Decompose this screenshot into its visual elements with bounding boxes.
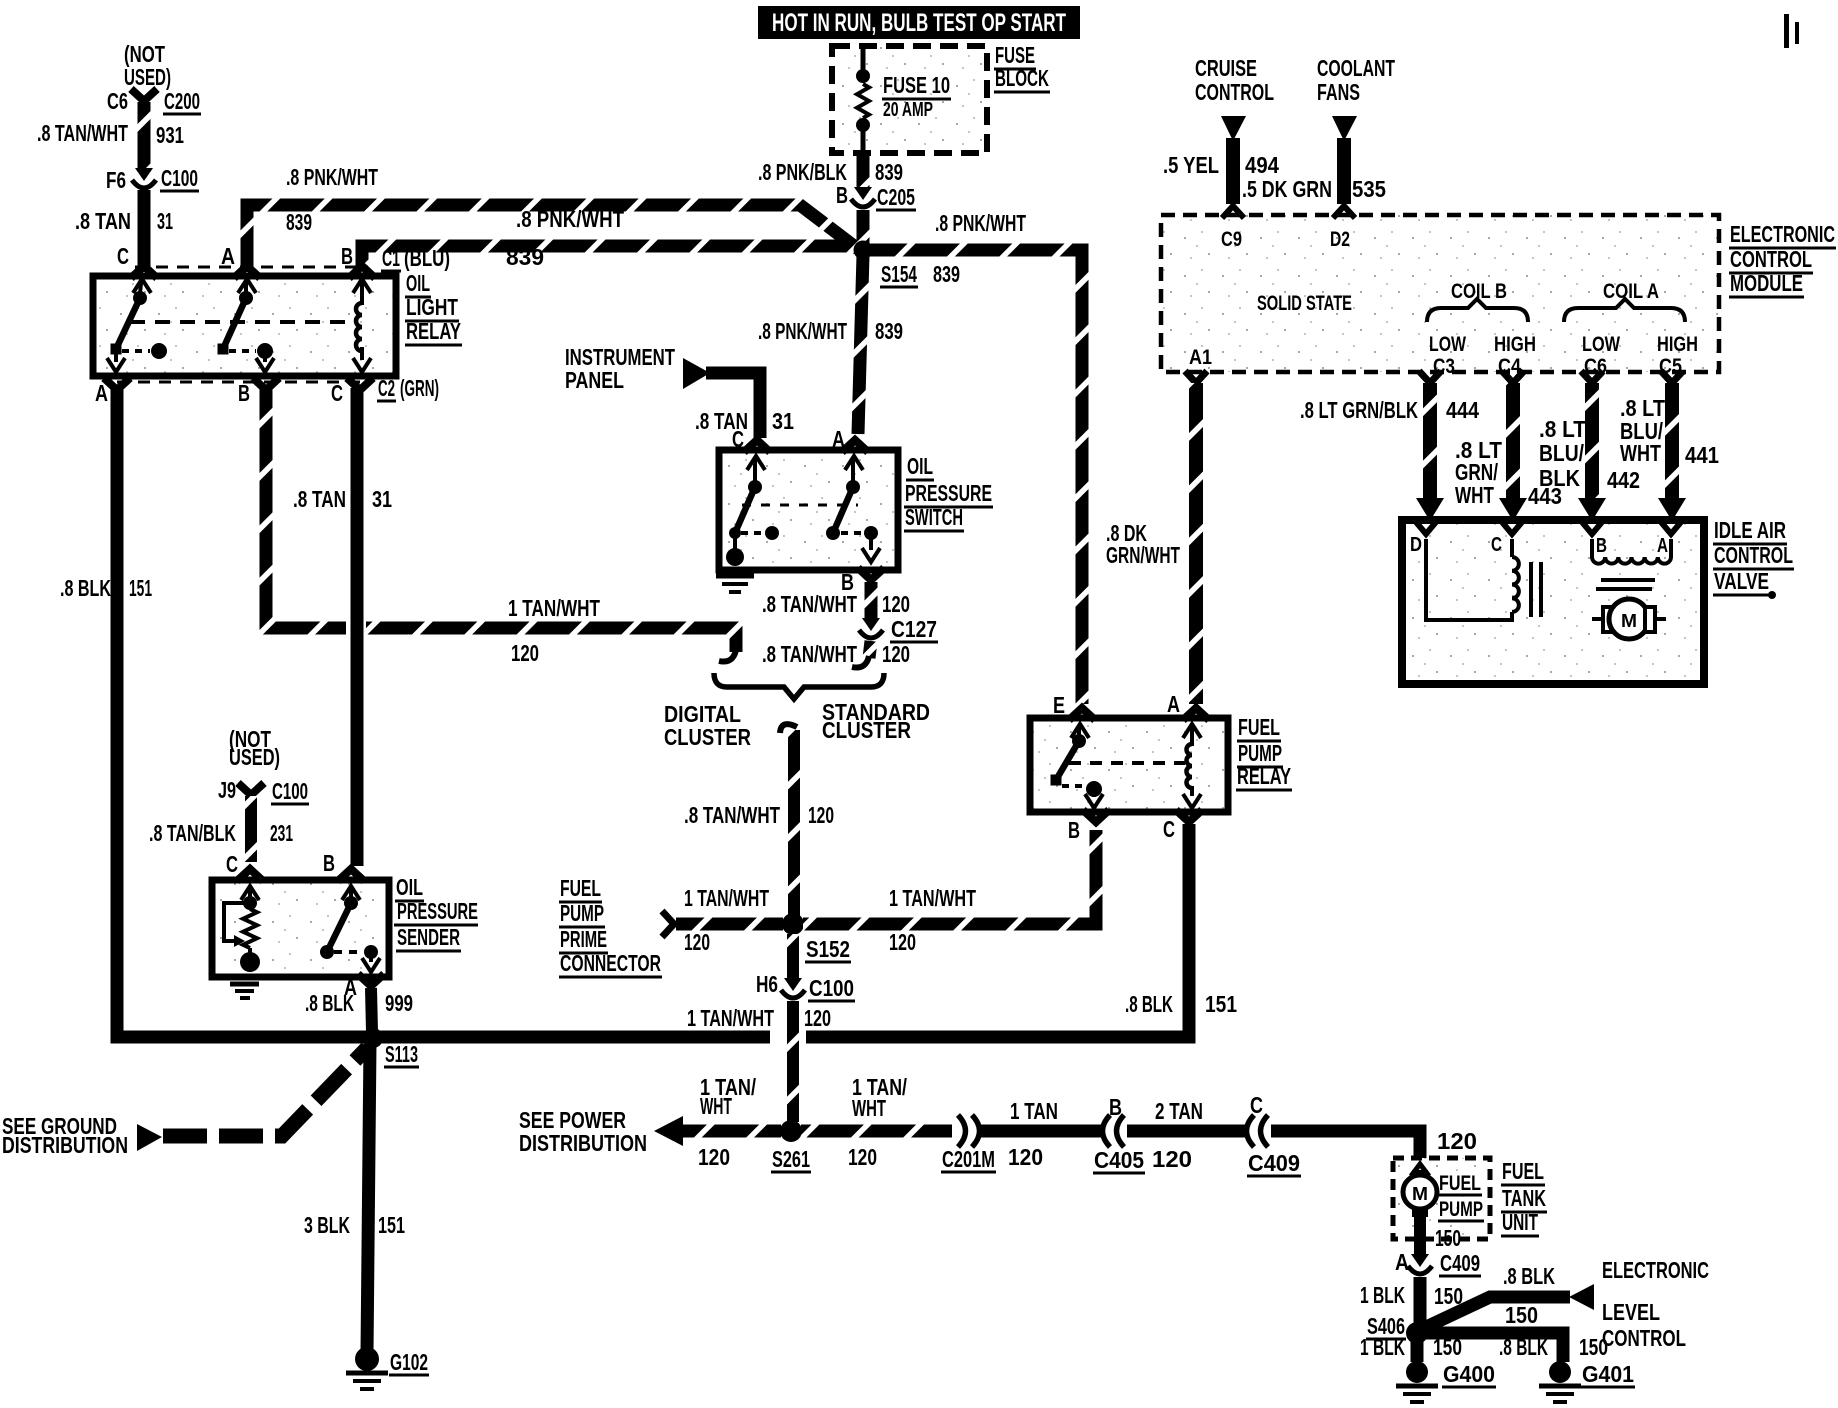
svg-text:1 BLK: 1 BLK: [1360, 1282, 1405, 1308]
svg-text:(GRN): (GRN): [400, 375, 439, 401]
svg-text:D2: D2: [1330, 228, 1350, 251]
wire prime connector to S152 1 TAN/WHT 120: [676, 918, 783, 931]
svg-text:C: C: [1491, 534, 1502, 556]
oil light relay top connector row: [135, 266, 368, 269]
svg-text:.8 TAN/WHT: .8 TAN/WHT: [684, 802, 780, 828]
svg-text:120: 120: [808, 802, 834, 828]
svg-text:150: 150: [1433, 1334, 1462, 1360]
svg-text:F6: F6: [106, 167, 126, 193]
svg-text:.8 LT: .8 LT: [1539, 416, 1587, 442]
switch pin B wire .8 TAN/WHT 120 to C127: [858, 568, 884, 580]
fuel pump relay coil: [1183, 724, 1201, 738]
svg-text:.8 LT GRN/BLK: .8 LT GRN/BLK: [1300, 397, 1418, 423]
wire S406 to G401 .8 BLK 150: [1424, 1333, 1563, 1362]
svg-text:20 AMP: 20 AMP: [883, 99, 933, 121]
wire C201M to C405 1 TAN 120: [977, 1125, 1102, 1138]
svg-text:FUEL: FUEL: [1502, 1158, 1544, 1184]
wire C405 to C409 2 TAN 120: [1127, 1125, 1246, 1138]
connector C100 pin F6: [135, 168, 153, 181]
svg-text:COOLANT: COOLANT: [1317, 55, 1395, 81]
svg-text:A: A: [1167, 691, 1180, 717]
wire instrument panel to switch pin C .8 TAN 31: [706, 373, 760, 438]
svg-text:C409: C409: [1440, 1250, 1480, 1276]
oil pressure switch ground: [716, 574, 754, 579]
svg-text:B: B: [1109, 1094, 1122, 1120]
wire S406 to electronic level control .8 BLK 150: [1424, 1297, 1570, 1328]
svg-text:OIL: OIL: [907, 453, 933, 479]
digital/standard cluster brace: [714, 673, 884, 699]
svg-text:1 TAN/WHT: 1 TAN/WHT: [687, 1005, 774, 1031]
svg-text:C: C: [1250, 1092, 1263, 1118]
svg-text:ELECTRONIC: ELECTRONIC: [1730, 221, 1835, 247]
svg-text:.8 BLK: .8 BLK: [1503, 1263, 1555, 1289]
valve winding B-A: [1590, 539, 1594, 557]
svg-text:444: 444: [1446, 397, 1479, 423]
svg-text:151: 151: [129, 575, 152, 601]
svg-text:SOLID STATE: SOLID STATE: [1257, 292, 1352, 315]
svg-text:A: A: [95, 380, 108, 406]
svg-text:C100: C100: [161, 165, 198, 191]
svg-text:839: 839: [286, 209, 312, 235]
svg-text:HIGH: HIGH: [1657, 333, 1698, 356]
svg-text:BLK: BLK: [1539, 465, 1580, 491]
svg-text:150: 150: [1579, 1334, 1608, 1360]
svg-text:VALVE: VALVE: [1714, 568, 1769, 594]
svg-text:931: 931: [156, 122, 184, 148]
wire ECM C3 to valve D .8 LT GRN/BLK 444: [1419, 371, 1441, 383]
banner HOT IN RUN: [758, 6, 1080, 39]
sender pin A wire .8 BLK 999: [358, 974, 384, 986]
svg-text:C: C: [226, 851, 238, 877]
svg-text:C9: C9: [1221, 228, 1242, 251]
svg-text:(BLU): (BLU): [404, 245, 450, 271]
svg-text:442: 442: [1607, 467, 1640, 493]
svg-text:PRESSURE: PRESSURE: [397, 898, 478, 924]
wire cruise control to ECM C9 .5 YEL 494: [1226, 138, 1240, 204]
svg-text:USED): USED): [229, 744, 280, 770]
svg-text:231: 231: [270, 820, 293, 846]
svg-text:120: 120: [848, 1144, 877, 1170]
svg-text:C1: C1: [382, 245, 400, 271]
oil light relay coil: [353, 279, 371, 293]
valve pin connectors D C B A: [1416, 522, 1436, 534]
oil light relay actuation dashed line: [130, 320, 350, 324]
svg-text:RELAY: RELAY: [1237, 763, 1291, 789]
sender internal ground: [230, 982, 259, 987]
svg-text:CONNECTOR: CONNECTOR: [560, 950, 661, 976]
wire C409 to S406 1 BLK 150: [1414, 1277, 1427, 1326]
svg-text:B: B: [1596, 535, 1607, 557]
valve coil core: [1529, 562, 1533, 617]
svg-text:A: A: [832, 426, 845, 452]
fuse F10 symbol: [861, 49, 866, 70]
fuse block box: [832, 46, 987, 153]
idle air control valve box: [1402, 520, 1704, 684]
svg-text:120: 120: [1152, 1146, 1192, 1172]
svg-text:31: 31: [157, 208, 173, 234]
wire ECM C6 to valve B .8 LT BLU/BLK 442: [1581, 371, 1603, 383]
svg-text:1 TAN/WHT: 1 TAN/WHT: [508, 595, 600, 621]
svg-text:CONTROL: CONTROL: [1730, 246, 1812, 272]
dashed wire S113 to ground distribution: [163, 1048, 367, 1136]
svg-text:120: 120: [1008, 1144, 1043, 1170]
svg-text:M: M: [1621, 611, 1637, 631]
svg-text:PRESSURE: PRESSURE: [905, 480, 992, 506]
svg-text:CLUSTER: CLUSTER: [822, 717, 911, 743]
svg-text:3 BLK: 3 BLK: [304, 1212, 350, 1238]
svg-text:SWITCH: SWITCH: [905, 504, 963, 530]
fuel pump relay bottom pins B C: [1083, 810, 1109, 822]
svg-text:CLUSTER: CLUSTER: [664, 724, 751, 750]
svg-text:494: 494: [1245, 152, 1279, 178]
wire C205 to S154 .8 PNK/WHT 839: [857, 210, 870, 246]
svg-text:S152: S152: [806, 936, 850, 962]
svg-text:31: 31: [372, 486, 392, 512]
svg-text:B: B: [238, 380, 250, 406]
svg-text:C: C: [117, 243, 129, 269]
svg-text:PANEL: PANEL: [565, 367, 624, 393]
valve solenoid coil D-C: [1426, 539, 1512, 620]
svg-text:C6: C6: [107, 88, 128, 114]
wire ECM A1 to fuel pump relay pin A .8 DK GRN/WHT: [1185, 371, 1207, 383]
sender switch contact: [342, 886, 360, 900]
splice S152: [782, 913, 804, 935]
wire S261 to power distribution 1 TAN/WHT 120: [680, 1125, 781, 1138]
svg-text:C127: C127: [891, 616, 937, 642]
connector C409 pin A: [1411, 1254, 1429, 1267]
ground G102: [355, 1347, 379, 1371]
svg-text:RELAY: RELAY: [406, 318, 461, 344]
wire C200 to C100 .8 TAN/WHT 931: [138, 102, 151, 172]
svg-text:FUEL: FUEL: [560, 875, 601, 901]
wire fuel pump relay pin C to BLK junction .8 BLK 151: [806, 824, 1189, 1037]
svg-text:C201M: C201M: [942, 1146, 995, 1172]
connector C409 pin C: [1247, 1115, 1255, 1147]
svg-text:PUMP: PUMP: [1439, 1198, 1483, 1221]
svg-text:OIL: OIL: [406, 270, 430, 296]
wire coolant fans to ECM D2 .5 DK GRN 535: [1337, 138, 1351, 204]
svg-text:E: E: [1053, 692, 1065, 718]
svg-text:HOT IN RUN, BULB TEST OP START: HOT IN RUN, BULB TEST OP START: [772, 9, 1066, 37]
svg-text:USED): USED): [124, 64, 171, 90]
svg-text:120: 120: [882, 591, 910, 617]
svg-text:PRIME: PRIME: [560, 926, 607, 952]
svg-text:.8 TAN/WHT: .8 TAN/WHT: [762, 591, 857, 617]
svg-text:.5 YEL: .5 YEL: [1163, 152, 1219, 178]
svg-text:151: 151: [378, 1212, 405, 1238]
ground G400: [1406, 1361, 1428, 1383]
svg-text:G401: G401: [1582, 1361, 1634, 1387]
svg-text:120: 120: [889, 929, 916, 955]
svg-text:.8 PNK/WHT: .8 PNK/WHT: [516, 206, 625, 232]
svg-text:C100: C100: [272, 778, 308, 804]
wire relay pin A down and across .8 BLK 151: [117, 388, 770, 1037]
svg-text:S113: S113: [385, 1041, 418, 1067]
oil pressure switch left contact to ground: [747, 456, 765, 470]
oil light relay switch A-B contacts: [238, 279, 256, 293]
svg-text:.8 TAN/BLK: .8 TAN/BLK: [149, 820, 236, 846]
electronic control module box: [1161, 215, 1719, 372]
svg-text:.8 PNK/WHT: .8 PNK/WHT: [286, 164, 378, 190]
svg-text:C405: C405: [1094, 1147, 1144, 1173]
svg-text:2 TAN: 2 TAN: [1155, 1098, 1203, 1124]
wire C100 to relay pin C .8 TAN 31: [138, 190, 151, 272]
wire C409 to fuel pump 120: [1271, 1131, 1420, 1162]
svg-text:B: B: [1068, 817, 1080, 843]
wire S154 to fuel pump relay pin E .8 PNK/WHT: [868, 250, 1082, 704]
svg-text:PUMP: PUMP: [560, 900, 604, 926]
svg-text:WHT: WHT: [852, 1095, 886, 1121]
svg-text:120: 120: [684, 929, 710, 955]
svg-text:1 TAN/WHT: 1 TAN/WHT: [889, 885, 976, 911]
svg-text:FUEL: FUEL: [1439, 1172, 1481, 1195]
svg-text:.8 TAN/WHT: .8 TAN/WHT: [37, 120, 128, 146]
svg-text:DISTRIBUTION: DISTRIBUTION: [2, 1132, 128, 1158]
svg-text:150: 150: [1505, 1302, 1538, 1328]
svg-text:.8 BLK: .8 BLK: [1499, 1334, 1548, 1360]
svg-text:.8 TAN: .8 TAN: [75, 208, 131, 234]
connector C200 pin C6 not used: [131, 89, 157, 101]
oil pressure switch actuation dashed line: [742, 504, 858, 507]
svg-text:120: 120: [511, 640, 539, 666]
svg-text:.5 DK GRN: .5 DK GRN: [1242, 176, 1332, 202]
svg-text:120: 120: [698, 1144, 730, 1170]
svg-text:1 TAN/WHT: 1 TAN/WHT: [684, 885, 769, 911]
fuel pump relay actuation dashed line: [1069, 761, 1185, 765]
svg-text:WHT: WHT: [1620, 440, 1661, 466]
wire relay pin C to sender pin B .8 TAN 31: [351, 388, 364, 866]
connector C100 pin J9 not used: [238, 783, 264, 795]
valve motor core lines: [1601, 578, 1655, 582]
svg-text:D: D: [1410, 534, 1422, 556]
oil pressure switch right contact: [845, 456, 863, 470]
wire oil light relay pin B / C1 to S154 .8 PNK/WHT 839: [362, 246, 857, 272]
svg-text:FUEL: FUEL: [1238, 714, 1280, 740]
oil light relay box: [93, 276, 396, 376]
svg-text:ELECTRONIC: ELECTRONIC: [1602, 1257, 1709, 1283]
svg-text:BLU/: BLU/: [1539, 440, 1584, 466]
wire S113 to G102 3 BLK 151: [367, 1043, 370, 1352]
svg-text:M: M: [1412, 1184, 1428, 1204]
wire cluster to S152 .8 TAN/WHT 120: [780, 724, 797, 733]
svg-text:.8 PNK/BLK: .8 PNK/BLK: [758, 159, 847, 185]
svg-text:.8 PNK/WHT: .8 PNK/WHT: [758, 318, 847, 344]
wire fuel pump to C409 150: [1414, 1217, 1426, 1257]
svg-text:839: 839: [875, 159, 903, 185]
svg-text:LOW: LOW: [1582, 333, 1620, 356]
svg-text:31: 31: [772, 408, 794, 434]
svg-text:150: 150: [1435, 1225, 1461, 1251]
svg-text:C: C: [732, 426, 744, 452]
svg-text:BLOCK: BLOCK: [995, 65, 1049, 91]
svg-text:J9: J9: [218, 777, 236, 803]
svg-text:FUSE 10: FUSE 10: [883, 72, 950, 98]
fuel pump relay switch: [1071, 724, 1089, 738]
svg-text:C: C: [1163, 816, 1175, 842]
svg-text:441: 441: [1685, 442, 1719, 468]
wire fuse to C205 .8 PNK/BLK 839: [857, 153, 870, 190]
oil light relay bottom connector row C2 GRN: [117, 381, 360, 384]
svg-text:B: B: [323, 850, 335, 876]
svg-text:DISTRIBUTION: DISTRIBUTION: [519, 1130, 647, 1156]
svg-text:CRUISE: CRUISE: [1195, 55, 1257, 81]
svg-text:LOW: LOW: [1429, 333, 1466, 356]
svg-text:120: 120: [804, 1005, 831, 1031]
wire J9 to sender pin C .8 TAN/BLK 231: [245, 796, 257, 862]
connector C205 pin B: [854, 187, 872, 200]
svg-text:151: 151: [1205, 991, 1237, 1017]
svg-text:.8 TAN: .8 TAN: [293, 486, 346, 512]
sender variable resistor: [241, 886, 259, 900]
valve motor: [1592, 617, 1605, 621]
svg-text:C100: C100: [809, 975, 854, 1001]
svg-text:S261: S261: [772, 1146, 810, 1172]
svg-text:C200: C200: [164, 88, 200, 114]
splice S154: [854, 241, 873, 260]
splice S406: [1406, 1322, 1428, 1344]
svg-text:839: 839: [506, 244, 544, 270]
wire ECM C4 to valve C .8 LT GRN/WHT 443: [1502, 371, 1524, 383]
fuel pump motor: [1411, 1164, 1429, 1176]
svg-text:535: 535: [1352, 176, 1386, 202]
svg-text:B: B: [341, 243, 353, 269]
svg-text:C: C: [331, 380, 343, 406]
scan marks right edge: [1784, 14, 1789, 48]
svg-text:999: 999: [385, 990, 413, 1016]
svg-text:WHT: WHT: [700, 1093, 732, 1119]
svg-text:.8 TAN/WHT: .8 TAN/WHT: [762, 641, 857, 667]
connector C100 pin H6: [784, 978, 802, 991]
svg-text:LEVEL: LEVEL: [1602, 1299, 1660, 1325]
svg-text:120: 120: [882, 641, 910, 667]
svg-text:GRN/WHT: GRN/WHT: [1106, 542, 1180, 568]
wire S152 to C100 .8 TAN/WHT: [787, 934, 799, 981]
svg-text:TANK: TANK: [1502, 1185, 1546, 1211]
connector C201M: [958, 1115, 966, 1147]
svg-text:MODULE: MODULE: [1730, 270, 1803, 296]
svg-text:A1: A1: [1189, 346, 1212, 369]
svg-text:A: A: [221, 243, 235, 269]
svg-text:1 BLK: 1 BLK: [1360, 1334, 1405, 1360]
svg-text:B: B: [836, 182, 848, 208]
splice S261: [780, 1120, 802, 1142]
svg-text:.8 BLK: .8 BLK: [1125, 991, 1173, 1017]
svg-text:CONTROL: CONTROL: [1195, 79, 1274, 105]
wire oil light relay pin A to S154 .8 PNK/WHT 839: [247, 205, 858, 272]
ground G401: [1549, 1361, 1571, 1383]
svg-text:OIL: OIL: [396, 874, 423, 900]
svg-text:IDLE AIR: IDLE AIR: [1714, 517, 1786, 543]
wire S152 to fuel pump relay pin B 1 TAN/WHT 120: [803, 830, 1096, 924]
fuel pump relay box: [1030, 718, 1228, 812]
svg-text:G102: G102: [390, 1349, 428, 1375]
wire relay pin B to cluster 1 TAN/WHT 120: [266, 388, 346, 628]
svg-text:C205: C205: [877, 184, 915, 210]
svg-text:A: A: [1657, 535, 1668, 557]
svg-text:120: 120: [1437, 1128, 1477, 1154]
svg-text:C2: C2: [378, 375, 395, 401]
wire S154 down to oil pressure switch pin A .8 PNK/WHT 839: [858, 255, 863, 434]
splice S113: [363, 1028, 383, 1048]
svg-text:839: 839: [933, 261, 960, 287]
wire S406 to G400 1 BLK 150: [1411, 1338, 1424, 1362]
svg-text:C409: C409: [1248, 1150, 1300, 1176]
svg-text:.8 PNK/WHT: .8 PNK/WHT: [935, 210, 1026, 236]
svg-text:S154: S154: [881, 261, 917, 287]
oil pressure sender box: [212, 880, 389, 977]
wire C127 to standard cluster .8 TAN/WHT 120: [869, 641, 871, 658]
svg-text:LIGHT: LIGHT: [406, 294, 458, 320]
wire S261 to C201M 1 TAN/WHT 120: [801, 1125, 952, 1138]
svg-text:UNIT: UNIT: [1502, 1209, 1538, 1235]
svg-text:G400: G400: [1443, 1361, 1495, 1387]
svg-text:.8 BLK: .8 BLK: [60, 575, 111, 601]
svg-text:HIGH: HIGH: [1494, 333, 1536, 356]
svg-text:WHT: WHT: [1455, 482, 1494, 508]
connector C405 pin B: [1103, 1115, 1111, 1147]
svg-text:COIL A: COIL A: [1603, 280, 1659, 303]
wire C100 to S261 1 TAN/WHT 120: [787, 1001, 799, 1122]
svg-text:FANS: FANS: [1317, 79, 1360, 105]
svg-text:H6: H6: [756, 971, 778, 997]
svg-text:SENDER: SENDER: [397, 924, 460, 950]
svg-text:CONTROL: CONTROL: [1714, 542, 1793, 568]
fuel tank unit box: [1393, 1158, 1490, 1239]
svg-text:.8 BLK: .8 BLK: [305, 990, 354, 1016]
svg-text:A: A: [1395, 1249, 1409, 1275]
svg-text:1 TAN: 1 TAN: [1010, 1098, 1058, 1124]
svg-text:839: 839: [875, 318, 903, 344]
svg-text:CONTROL: CONTROL: [1602, 1325, 1686, 1351]
connector C127: [862, 618, 880, 631]
oil light relay switch C-A contacts: [133, 279, 151, 293]
oil pressure switch box: [719, 450, 898, 570]
wire ECM C5 to valve A .8 LT BLU/WHT 441: [1661, 371, 1683, 383]
